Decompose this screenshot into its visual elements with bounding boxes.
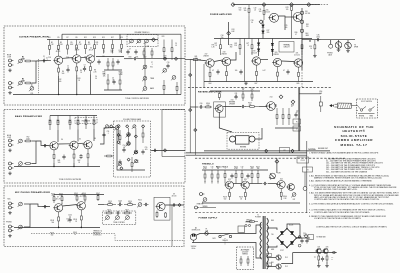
- switch SW2: [369, 107, 375, 112]
- svg-text:X24: X24: [280, 179, 283, 181]
- svg-text:47K: 47K: [52, 195, 55, 197]
- svg-text:R7: R7: [67, 37, 69, 39]
- svg-text:10K: 10K: [103, 73, 106, 75]
- node bass out: [163, 149, 166, 152]
- svg-text:R8: R8: [94, 70, 96, 72]
- svg-text:C60: C60: [200, 103, 203, 105]
- svg-text:R108: R108: [50, 220, 54, 222]
- pot R65: [126, 133, 131, 138]
- svg-text:R154: R154: [234, 166, 238, 168]
- svg-text:R21: R21: [147, 46, 150, 48]
- svg-text:2N3393: 2N3393: [273, 54, 278, 56]
- svg-text:R159: R159: [239, 197, 243, 199]
- pot R161 speed: [202, 198, 207, 203]
- svg-text:R143: R143: [250, 88, 254, 90]
- svg-text:X3: X3: [90, 48, 92, 50]
- svg-text:C3: C3: [84, 65, 86, 67]
- svg-text:R13: R13: [78, 78, 81, 80]
- svg-text:R67: R67: [255, 83, 258, 85]
- svg-text:6. ◎ THIS SYMBOL INDICATES A: 6. ◎ THIS SYMBOL INDICATES A SCREWDRIVER…: [309, 203, 394, 206]
- svg-text:R61: R61: [195, 56, 198, 58]
- wire rail link: [61, 34, 63, 39]
- svg-text:X2: X2: [76, 48, 78, 50]
- section box GUITAR PREAMPLIFIER: [4, 26, 185, 105]
- svg-text:X5: X5: [79, 139, 81, 141]
- svg-text:GRN: GRN: [306, 35, 309, 37]
- capacitor C5: [116, 60, 119, 65]
- svg-text:R115: R115: [138, 200, 142, 202]
- svg-text:33K: 33K: [108, 211, 111, 213]
- transistor Q1: [53, 56, 62, 64]
- node diamond: [290, 3, 294, 7]
- wire amp rail: [214, 38, 312, 40]
- svg-text:820: 820: [267, 32, 270, 34]
- svg-text:1. RESISTOR AND CAPACITOR NU: 1. RESISTOR AND CAPACITOR NUMBERS ARE IN…: [309, 152, 379, 155]
- svg-text:R12: R12: [59, 79, 62, 81]
- AC plug: [190, 234, 196, 243]
- svg-text:47K: 47K: [249, 104, 252, 106]
- capacitor C3: [83, 67, 86, 72]
- transistor Q11 driver: [292, 13, 302, 22]
- resistor R56: [57, 116, 59, 131]
- connector circle bus: [303, 187, 307, 191]
- svg-text:R157: R157: [256, 166, 260, 168]
- wire to footswitch: [299, 93, 321, 95]
- capacitor C151 filter: [305, 239, 308, 244]
- svg-text:10K: 10K: [314, 257, 316, 259]
- svg-text:R74: R74: [232, 29, 235, 31]
- resistor R62 emitter: [73, 149, 75, 163]
- svg-text:560: 560: [239, 9, 242, 11]
- transistor Q6: [83, 141, 93, 149]
- svg-text:C7: C7: [129, 49, 131, 51]
- svg-text:C102: C102: [68, 215, 72, 217]
- resistor R69: [142, 127, 144, 143]
- transistor Q21: [276, 181, 285, 189]
- svg-text:CIRCUIT: CIRCUIT: [283, 46, 289, 48]
- capacitor C105 out: [172, 203, 177, 206]
- svg-text:R52: R52: [27, 137, 30, 139]
- pot R112: [125, 216, 130, 221]
- svg-text:REMOTE: REMOTE: [197, 204, 203, 206]
- svg-text:POWER: POWER: [255, 216, 262, 218]
- svg-text:2000: 2000: [316, 36, 320, 38]
- wire rail reverb: [210, 90, 260, 92]
- pot R64: [114, 126, 119, 131]
- resistor R15: [112, 58, 114, 70]
- wire Q7-Q8: [63, 205, 78, 207]
- svg-text:2.2K: 2.2K: [78, 44, 81, 46]
- svg-text:R75: R75: [214, 43, 217, 45]
- pot R66: [126, 142, 131, 147]
- resistor R14: [107, 58, 109, 70]
- svg-text:470K: 470K: [163, 57, 167, 59]
- svg-text:P3 J3: P3 J3: [301, 160, 305, 162]
- transistor Q4: [49, 142, 58, 150]
- svg-text:1K: 1K: [80, 72, 82, 74]
- jack J3 HIGH input 2: [9, 82, 14, 85]
- svg-text:GUITAR PREAMPLIFIER: GUITAR PREAMPLIFIER: [19, 36, 49, 39]
- wire bottom bus: [13, 94, 160, 96]
- transistor Q17 reverb driver: [214, 105, 223, 113]
- svg-text:PHONO: PHONO: [327, 53, 333, 55]
- svg-text:LOCATION OF THE PHYSICAL LOCAT: LOCATION OF THE PHYSICAL LOCATION OF PAR…: [314, 217, 362, 220]
- svg-text:R19: R19: [120, 37, 123, 39]
- section border tremolo bottom: [195, 212, 310, 214]
- resistor R155: [241, 170, 243, 181]
- node diamond: [231, 3, 235, 7]
- svg-text:R15: R15: [119, 50, 122, 52]
- transistor Q15: [272, 58, 282, 66]
- svg-text:R57: R57: [69, 120, 72, 122]
- svg-text:R60: R60: [93, 120, 96, 122]
- ground: [313, 54, 317, 57]
- svg-text:BASS PREAMPLIFIER: BASS PREAMPLIFIER: [15, 115, 42, 118]
- section box MIC PHONO PREAMPLIFIER: [4, 186, 184, 247]
- capacitor C160: [321, 257, 324, 262]
- wire tone network: [96, 56, 124, 58]
- wire bus line A: [186, 152, 307, 154]
- svg-text:R23: R23: [164, 56, 167, 58]
- box Q17 can outline: [214, 102, 226, 117]
- svg-text:100: 100: [235, 70, 238, 72]
- pot R25 bass: [142, 87, 147, 92]
- wire guitar output: [124, 58, 133, 60]
- capacitor C104: [144, 203, 149, 206]
- transformer T1 secondary: [267, 218, 269, 269]
- svg-text:.02: .02: [123, 147, 125, 149]
- svg-text:R150: R150: [203, 166, 207, 168]
- section box FOOT SWITCH: [357, 99, 378, 118]
- svg-text:68K: 68K: [126, 211, 129, 213]
- wire pre bus vertical 2: [194, 60, 196, 156]
- svg-text:CONTROLS: CONTROLS: [93, 234, 101, 236]
- svg-text:D1-D4: D1-D4: [289, 225, 294, 227]
- capacitor C103: [118, 203, 123, 206]
- svg-text:POWER AMPLIFIER: POWER AMPLIFIER: [210, 13, 232, 16]
- resistor R153: [224, 170, 226, 181]
- wire pre bus vertical: [189, 60, 191, 153]
- svg-text:560: 560: [62, 73, 65, 75]
- ground: [317, 264, 321, 267]
- capacitor C58: [102, 133, 105, 138]
- svg-text:R146: R146: [291, 105, 294, 107]
- svg-text:R103: R103: [51, 193, 55, 195]
- transistor Q5: [69, 141, 79, 149]
- node diamond: [307, 3, 311, 7]
- alternate wiring dashed box: [237, 247, 254, 270]
- capacitor C57 output: [153, 149, 158, 152]
- svg-text:COMBO AMPLIFIER: COMBO AMPLIFIER: [335, 138, 373, 142]
- wire dashed drop to footswitch: [301, 48, 303, 88]
- resistor R129 emitter: [277, 67, 279, 82]
- wire to Q18: [223, 106, 241, 108]
- svg-text:220K: 220K: [74, 195, 78, 197]
- svg-text:BLK: BLK: [306, 33, 309, 35]
- capacitor C63 coupling: [241, 105, 246, 108]
- jack J14 foot: [200, 193, 205, 196]
- svg-text:X9: X9: [173, 194, 175, 196]
- wire mic out: [165, 204, 184, 206]
- resistor R10d: [121, 40, 123, 54]
- transistor Q12: [205, 59, 215, 67]
- wire reverb bottom bus: [204, 150, 330, 152]
- svg-text:X25: X25: [317, 247, 320, 249]
- resistor R130 emitter: [298, 67, 300, 81]
- svg-text:LOW: LOW: [7, 57, 11, 59]
- wire bridge top out: [287, 224, 300, 229]
- wire mini bus: [293, 252, 337, 254]
- resistor R122: [220, 39, 222, 56]
- resistor R13 emitter: [89, 63, 91, 75]
- bridge rectifier diamond: [278, 229, 297, 248]
- wire collector drops: [57, 130, 59, 142]
- resistor net G: [176, 82, 178, 95]
- svg-text:SW1: SW1: [212, 238, 215, 240]
- resistor R57: [69, 116, 71, 130]
- resistor R70: [131, 157, 133, 172]
- transistor Q10 driver: [268, 13, 278, 22]
- svg-text:6.8K: 6.8K: [231, 31, 234, 33]
- resistor R123: [239, 39, 241, 56]
- svg-text:T1: T1: [257, 215, 259, 217]
- transistor Q9 output: [156, 202, 166, 210]
- bridge corner nodes: [286, 228, 288, 230]
- resistor R5: [49, 40, 51, 56]
- ground: [244, 82, 248, 85]
- capacitor C2: [66, 68, 69, 73]
- svg-text:INTERLOCK: INTERLOCK: [192, 229, 201, 231]
- wire top bus: [233, 4, 320, 6]
- wire tremolo rail: [202, 169, 268, 171]
- svg-text:470K: 470K: [203, 168, 207, 170]
- resistor net F: [163, 80, 165, 95]
- svg-text:X14: X14: [270, 97, 273, 99]
- svg-text:47: 47: [283, 70, 285, 72]
- svg-text:REVERB UNIT: REVERB UNIT: [318, 148, 328, 150]
- wire vol link: [31, 84, 33, 87]
- wire fs entries: [357, 105, 361, 109]
- node diamond: [275, 160, 279, 164]
- wire mini grounds: [318, 262, 320, 264]
- resistor R128 emitter: [256, 65, 258, 81]
- svg-text:R76: R76: [234, 43, 237, 45]
- svg-text:P2: P2: [284, 150, 286, 152]
- resistor R106: [84, 195, 86, 202]
- wire tremolo res stubs: [204, 181, 206, 184]
- svg-text:R11: R11: [96, 42, 99, 44]
- jack J1 HIGH input: [9, 59, 14, 62]
- resistor R158 emitter: [229, 189, 231, 200]
- wire output vertical: [301, 8, 303, 70]
- reverb tank enclosure: [227, 132, 259, 149]
- resistor R154: [235, 170, 237, 181]
- svg-text:R3: R3: [60, 42, 62, 44]
- svg-text:.1: .1: [151, 64, 152, 66]
- ground: [325, 264, 329, 267]
- svg-text:47K: 47K: [251, 168, 254, 170]
- svg-text:3. ALL CAPACITOR VALUES ARE: 3. ALL CAPACITOR VALUES ARE IN µF UNLESS…: [309, 180, 373, 183]
- wire emitters to bus: [58, 226, 60, 228]
- resistor R104: [61, 195, 63, 204]
- svg-text:R9: R9: [76, 37, 78, 39]
- node diamond reverb bus 2: [291, 149, 294, 152]
- wire mic bottom bus: [14, 227, 100, 229]
- node mic out diamond: [178, 204, 181, 207]
- svg-text:10K: 10K: [97, 195, 100, 197]
- capacitor C122: [286, 70, 289, 75]
- resistor R52: [24, 140, 32, 142]
- transistor Q13: [221, 57, 231, 65]
- svg-text:50: 50: [251, 22, 253, 24]
- svg-text:.1: .1: [211, 168, 212, 170]
- mini dashed label box bass: [75, 118, 97, 124]
- resistor R151: [211, 170, 213, 182]
- svg-text:R75: R75: [212, 45, 215, 47]
- svg-text:WIRING: WIRING: [242, 253, 248, 255]
- wire reverb input: [190, 106, 198, 108]
- svg-text:CHASSIS GROUND. THE PLUG MAY V: CHASSIS GROUND. THE PLUG MAY VARY ±20%.: [314, 188, 358, 191]
- svg-text:220K: 220K: [26, 138, 30, 140]
- transistor Q3: [85, 55, 95, 63]
- wire tone internals: [117, 130, 145, 171]
- svg-text:10K: 10K: [257, 168, 260, 170]
- svg-text:.1: .1: [200, 105, 201, 107]
- svg-text:R116: R116: [107, 210, 111, 212]
- connector circle: [298, 244, 301, 247]
- svg-text:R79: R79: [285, 25, 288, 27]
- resistor R127 emitter: [226, 66, 228, 82]
- svg-text:10: 10: [310, 48, 312, 50]
- svg-text:R11: R11: [84, 37, 87, 39]
- transistor Q14: [251, 57, 261, 65]
- svg-text:50: 50: [69, 216, 71, 218]
- wire collector stubs guitar: [58, 55, 60, 56]
- svg-text:R21: R21: [136, 57, 139, 59]
- wire join inputs: [32, 140, 36, 142]
- svg-text:68K: 68K: [109, 203, 112, 205]
- resistor R51: [18, 139, 23, 144]
- svg-text:R81: R81: [306, 24, 309, 26]
- box Q9 outline: [154, 197, 170, 220]
- svg-text:301 - 350 PARTS MOUNTED ON T: 301 - 350 PARTS MOUNTED ON THE CHASSIS: [326, 170, 368, 173]
- wire tremolo bottom: [202, 202, 300, 204]
- svg-text:68K: 68K: [207, 105, 210, 107]
- resistor R1: [18, 59, 23, 64]
- wire bass right loop: [161, 110, 163, 157]
- ground: [8, 172, 12, 175]
- resistor R11 emitter: [58, 64, 60, 76]
- svg-text:417-79: 417-79: [56, 198, 61, 200]
- lamp PL2: [276, 264, 281, 269]
- svg-text:X4: X4: [61, 139, 63, 141]
- svg-text:C62: C62: [296, 111, 299, 113]
- capacitor C121: [239, 70, 242, 75]
- wire mini left vert: [281, 253, 293, 264]
- svg-text:417-79: 417-79: [56, 51, 61, 53]
- svg-text:1K: 1K: [96, 44, 98, 46]
- switch S2: [219, 234, 232, 238]
- svg-text:R107: R107: [96, 193, 100, 195]
- resistor R156: [251, 170, 253, 181]
- wire rail drop x291: [291, 12, 293, 39]
- wire collector link: [61, 203, 63, 205]
- svg-text:33K: 33K: [129, 203, 132, 205]
- svg-text:X22: X22: [228, 179, 231, 181]
- resistor R140: [204, 106, 212, 108]
- resistor R8: [76, 40, 78, 55]
- svg-text:CONTROL AND THE NOTCH INDICATE: CONTROL AND THE NOTCH INDICATES THE CIRC…: [314, 198, 380, 201]
- svg-text:1K: 1K: [78, 162, 80, 164]
- svg-text:INT: INT: [293, 199, 296, 201]
- sub-box tone controls bass: [114, 121, 151, 177]
- wire driver links: [279, 16, 286, 30]
- connector box J1: [293, 119, 301, 124]
- pot R111: [115, 216, 120, 221]
- svg-text:R113: R113: [108, 201, 112, 203]
- connector circle P1: [300, 11, 303, 14]
- svg-text:P1: P1: [296, 122, 298, 124]
- transistor Q7: [53, 204, 62, 212]
- wire filter bus: [297, 237, 311, 239]
- dashed route mic bottom: [31, 234, 183, 241]
- svg-text:470K: 470K: [234, 168, 238, 170]
- svg-text:C51: C51: [107, 131, 110, 133]
- wire to Q7: [30, 204, 50, 207]
- svg-text:R1: R1: [22, 57, 24, 59]
- svg-text:R104: R104: [59, 193, 63, 195]
- node output diamond: [163, 57, 166, 60]
- svg-text:220K: 220K: [21, 58, 25, 60]
- jack J5 input high: [9, 139, 14, 142]
- svg-text:C7: C7: [151, 62, 153, 64]
- resistor R55: [49, 116, 51, 131]
- svg-text:X13: X13: [231, 100, 234, 102]
- connector small: [333, 251, 336, 254]
- svg-text:C5: C5: [103, 50, 105, 52]
- jack J13 phones: [329, 44, 333, 48]
- svg-text:POWER SUPPLY: POWER SUPPLY: [199, 218, 218, 220]
- wire jack drop: [330, 40, 332, 45]
- transformer T1 primary: [260, 222, 262, 259]
- svg-text:57-27: 57-27: [280, 250, 284, 252]
- sub-box FOOT SWITCH pots: [127, 35, 158, 47]
- capacitor C72: [263, 182, 268, 185]
- wire supply rail resistors: [47, 39, 158, 41]
- svg-text:C71: C71: [224, 166, 227, 168]
- resistor R3: [18, 81, 23, 86]
- ground: [8, 149, 12, 152]
- svg-text:R22: R22: [144, 57, 147, 59]
- wire rail drop x249: [248, 16, 250, 39]
- svg-text:MODEL TA-17: MODEL TA-17: [341, 143, 368, 147]
- wire diode stack: [262, 20, 264, 39]
- svg-text:R105: R105: [74, 193, 78, 195]
- svg-text:X1: X1: [57, 49, 59, 51]
- resistor R159 emitter: [244, 189, 246, 200]
- diode D2: [262, 31, 265, 33]
- svg-text:R56: R56: [57, 120, 60, 122]
- transistor Q18 reverb amp: [265, 102, 275, 111]
- svg-text:33K: 33K: [119, 52, 122, 54]
- resistor R17: [107, 74, 109, 90]
- resistor R10: [94, 40, 96, 55]
- svg-text:C6: C6: [112, 78, 114, 80]
- svg-text:250: 250: [221, 37, 224, 39]
- resistor R143: [251, 91, 253, 101]
- connector box: [279, 148, 289, 153]
- jack J11 phono input: [9, 225, 14, 228]
